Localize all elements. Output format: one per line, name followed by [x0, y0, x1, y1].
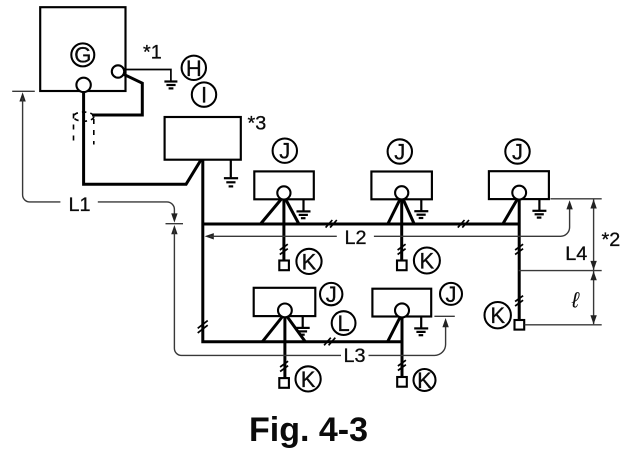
unit G box	[40, 7, 125, 91]
svg-text:*2: *2	[602, 229, 621, 251]
break mark on K2b drop	[398, 360, 406, 370]
dimension L3 up arrow at tick	[171, 225, 177, 234]
unit J1 box	[254, 171, 313, 199]
unit J3 box	[489, 171, 549, 199]
dimension L1 start tick	[12, 90, 35, 92]
unit *3 box	[165, 117, 241, 160]
svg-text:L2: L2	[345, 227, 367, 249]
break mark on K2 drop	[398, 244, 406, 254]
label G	[71, 42, 94, 67]
svg-text:K: K	[417, 368, 432, 393]
dimension L2 right line	[374, 206, 570, 236]
unit J2 box	[371, 172, 432, 200]
unit J2b tent wire	[388, 314, 402, 342]
drop wire to K2	[400, 193, 403, 261]
ground J1b	[296, 316, 310, 335]
dimension l line	[593, 271, 595, 324]
main trunk wire from unit *3 down and to bottom branch	[203, 160, 402, 342]
extension tick at J2b	[434, 315, 454, 317]
ground J2b	[414, 317, 428, 336]
label J3	[505, 139, 529, 164]
dimension L1 up arrow	[19, 92, 25, 101]
junction tick	[166, 223, 184, 225]
top branch main wire L2	[203, 223, 519, 226]
dimension L1 line	[23, 98, 61, 202]
svg-text:J: J	[326, 282, 337, 307]
dimension L1 down arrow	[171, 213, 177, 222]
svg-text:L4: L4	[565, 243, 587, 265]
port J1	[277, 186, 290, 199]
dimension L1 line right	[98, 202, 175, 216]
break mark on trunk	[198, 321, 208, 333]
dimension L4 line	[593, 200, 595, 271]
label L	[332, 311, 356, 336]
extension line B	[519, 270, 602, 272]
port on G bottom	[76, 78, 90, 92]
ground *1	[164, 82, 177, 89]
dimension L3 right line	[369, 324, 446, 355]
svg-text:J: J	[446, 282, 457, 307]
port J2	[395, 186, 408, 199]
svg-text:K: K	[302, 249, 317, 274]
break mark on top branch (left)	[326, 220, 337, 228]
port J2b	[395, 303, 409, 317]
dimension L3 left line	[174, 230, 341, 355]
drop wire to K2b	[401, 310, 404, 377]
break mark on K1b drop	[280, 361, 288, 371]
extension line C	[525, 324, 602, 326]
svg-text:L: L	[337, 311, 349, 336]
svg-text:*3: *3	[248, 112, 267, 134]
wire from G bottom port to unit *3	[84, 92, 202, 185]
dimension L2 line	[210, 235, 337, 237]
port J1b	[278, 304, 292, 318]
svg-text:L1: L1	[69, 194, 91, 216]
dimension l arrows	[590, 271, 596, 280]
label K3	[485, 302, 511, 328]
K2b connector square	[397, 377, 407, 387]
svg-text:*1: *1	[143, 42, 162, 64]
label K1b	[296, 366, 321, 392]
svg-text:J: J	[394, 140, 405, 165]
label K2	[414, 248, 440, 274]
unit J2b box	[372, 289, 431, 317]
wire from G right port to *1 ground	[122, 70, 171, 82]
wire branch from G right port (taped to trunk)	[92, 72, 142, 115]
port on G right	[112, 65, 124, 77]
break mark on K3 drop lower	[515, 296, 523, 306]
ground under unit *3	[224, 160, 238, 187]
break mark on K3 drop upper	[515, 244, 523, 254]
svg-text:K: K	[301, 367, 316, 392]
extension line A	[550, 198, 601, 200]
unit J2 top tent wires	[388, 196, 402, 224]
unit J1b box	[254, 288, 316, 316]
label J2b	[440, 282, 462, 307]
K1 connector square	[279, 261, 289, 271]
break mark on top branch (right)	[458, 220, 469, 228]
dimension L3 end arrow	[442, 318, 448, 327]
svg-text:L3: L3	[344, 345, 366, 367]
ground J2	[414, 199, 428, 218]
K3 connector square	[515, 320, 525, 330]
unit J1b tent wires	[262, 314, 285, 342]
K1b connector square	[279, 378, 289, 388]
drop wire to K3	[518, 193, 521, 321]
ground J1	[297, 199, 311, 218]
K2 connector square	[397, 261, 407, 271]
port J3	[512, 186, 526, 200]
dimension L2 left arrow	[205, 233, 214, 239]
svg-text:ℓ: ℓ	[571, 288, 580, 313]
svg-text:G: G	[74, 42, 91, 67]
svg-text:K: K	[420, 249, 435, 274]
dimension L2 end arrow	[566, 200, 572, 209]
svg-text:Fig. 4-3: Fig. 4-3	[249, 411, 368, 449]
label H	[182, 56, 206, 81]
ground J3	[532, 199, 546, 218]
unit J3 tent wire	[503, 196, 519, 224]
label J1b	[320, 282, 342, 307]
drop wire to K1b	[283, 310, 286, 378]
svg-text:J: J	[512, 140, 523, 165]
label K1	[296, 249, 321, 275]
svg-text:I: I	[201, 83, 207, 108]
svg-text:H: H	[186, 56, 202, 81]
label J2	[388, 139, 412, 164]
label K2b	[414, 368, 436, 393]
label I	[192, 82, 216, 107]
svg-text:K: K	[490, 303, 505, 328]
drop wire to K1	[282, 193, 285, 261]
dashed sleeve around trunk wire	[74, 112, 94, 145]
unit J1 top tent wires	[261, 196, 284, 224]
break mark on bottom branch	[324, 338, 335, 346]
svg-text:J: J	[279, 139, 290, 164]
label J1	[273, 139, 297, 164]
break mark on K1 drop	[280, 244, 288, 254]
dimension L4 arrows	[590, 199, 596, 208]
